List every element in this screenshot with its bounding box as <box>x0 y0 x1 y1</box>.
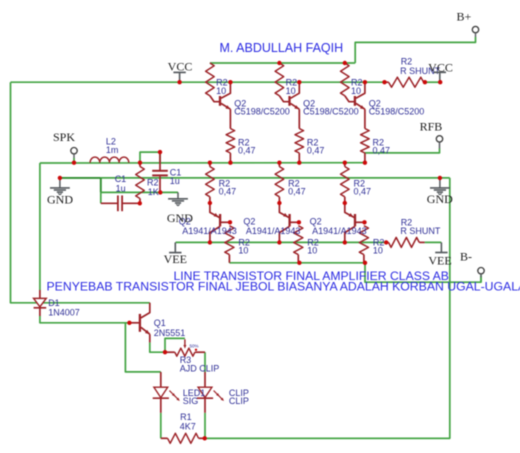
svg-text:0,47: 0,47 <box>238 145 256 155</box>
svg-text:RFB: RFB <box>420 119 443 133</box>
svg-text:10: 10 <box>286 86 296 96</box>
svg-text:A1941/A1943: A1941/A1943 <box>182 226 237 236</box>
svg-text:4K7: 4K7 <box>180 422 196 432</box>
svg-text:A1941/A1943: A1941/A1943 <box>246 226 301 236</box>
svg-text:Q1: Q1 <box>154 318 166 328</box>
svg-text:1u: 1u <box>170 176 180 186</box>
svg-text:CLIP: CLIP <box>229 396 249 406</box>
svg-text:M. ABDULLAH FAQIH: M. ABDULLAH FAQIH <box>220 41 344 55</box>
svg-text:0,47: 0,47 <box>307 145 325 155</box>
svg-text:10: 10 <box>373 245 383 255</box>
svg-text:10: 10 <box>351 86 361 96</box>
svg-text:0,47: 0,47 <box>373 145 391 155</box>
svg-text:2N5551: 2N5551 <box>154 328 186 338</box>
svg-text:0,47: 0,47 <box>219 187 237 197</box>
svg-text:C5198/C5200: C5198/C5200 <box>303 107 359 117</box>
svg-text:10: 10 <box>238 245 248 255</box>
svg-text:C5198/C5200: C5198/C5200 <box>234 107 290 117</box>
svg-text:1m: 1m <box>106 145 119 155</box>
svg-text:1N4007: 1N4007 <box>48 307 80 317</box>
svg-text:Q2: Q2 <box>243 216 255 226</box>
svg-text:R1: R1 <box>180 412 192 422</box>
svg-text:10: 10 <box>307 245 317 255</box>
svg-text:GND: GND <box>47 193 73 207</box>
svg-text:GND: GND <box>427 192 453 206</box>
svg-text:R SHUNT: R SHUNT <box>400 226 441 236</box>
svg-text:1K: 1K <box>148 187 159 197</box>
svg-text:1u: 1u <box>116 184 126 194</box>
svg-text:0,47: 0,47 <box>354 187 372 197</box>
svg-text:50%: 50% <box>190 344 199 349</box>
svg-text:SPK: SPK <box>53 130 75 144</box>
svg-text:GND: GND <box>167 211 193 225</box>
svg-text:VCC: VCC <box>428 60 453 74</box>
svg-text:10: 10 <box>216 86 226 96</box>
svg-text:VEE: VEE <box>164 252 187 266</box>
svg-text:B-: B- <box>460 249 472 263</box>
svg-text:C5198/C5200: C5198/C5200 <box>369 107 425 117</box>
svg-text:SIG: SIG <box>183 396 199 406</box>
svg-text:AJD CLIP: AJD CLIP <box>180 363 220 373</box>
svg-text:VEE: VEE <box>428 254 451 268</box>
svg-text:PENYEBAB TRANSISTOR FINAL JEBO: PENYEBAB TRANSISTOR FINAL JEBOL BIASANYA… <box>47 280 520 294</box>
svg-text:B+: B+ <box>457 10 472 24</box>
svg-text:A1941/A1943: A1941/A1943 <box>312 226 367 236</box>
svg-text:Q2: Q2 <box>310 216 322 226</box>
svg-text:VCC: VCC <box>168 60 193 74</box>
svg-text:0,47: 0,47 <box>288 187 306 197</box>
svg-text:C1: C1 <box>115 174 127 184</box>
